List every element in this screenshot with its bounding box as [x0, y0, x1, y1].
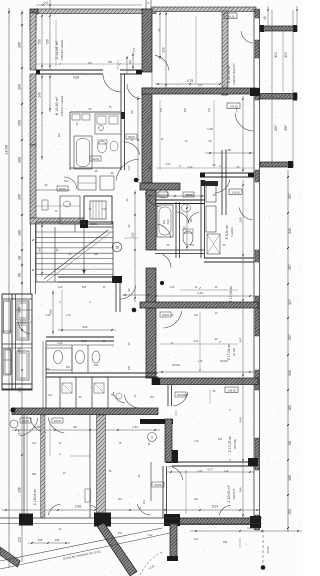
dim lines K room — [41, 74, 43, 160]
column dot C — [160, 281, 164, 285]
dim hall — [134, 190, 136, 302]
dim left mid rooms — [41, 222, 43, 277]
wall kitchen divider — [120, 74, 122, 170]
svg-text:2,02: 2,02 — [128, 165, 131, 170]
svg-text:2,44: 2,44 — [224, 470, 229, 473]
svg-text:365: 365 — [18, 120, 22, 126]
svg-text:13,68: 13,68 — [4, 144, 9, 155]
svg-text:251: 251 — [118, 498, 123, 501]
svg-text:4,78: 4,78 — [187, 79, 193, 83]
terrace edge — [0, 517, 262, 519]
svg-text:90/200: 90/200 — [172, 364, 180, 367]
dim bottom terrace — [2, 509, 260, 511]
svg-text:4,77: 4,77 — [207, 468, 213, 472]
stair top wall segment — [84, 221, 113, 223]
svg-text:750: 750 — [38, 39, 42, 45]
svg-text:385: 385 — [32, 473, 37, 476]
svg-text:AC 300: AC 300 — [233, 347, 236, 356]
marker dashed vertical — [262, 530, 264, 564]
svg-text:Z 22,46 m²: Z 22,46 m² — [227, 64, 231, 83]
svg-text:90/200: 90/200 — [54, 421, 62, 423]
svg-text:1,76: 1,76 — [66, 314, 71, 317]
right top dimension marks — [267, 6, 269, 26]
svg-text:365: 365 — [18, 42, 22, 48]
svg-text:400: 400 — [284, 52, 288, 58]
svg-text:1,51: 1,51 — [133, 47, 136, 52]
svg-text:1.06.05: 1.06.05 — [227, 389, 236, 392]
svg-text:340: 340 — [288, 228, 292, 234]
svg-text:257: 257 — [288, 334, 292, 340]
door arc hall lower — [121, 286, 136, 299]
svg-text:302: 302 — [94, 364, 99, 367]
svg-text:1,51: 1,51 — [150, 139, 153, 144]
door arc bay — [18, 322, 30, 334]
shower mid grid — [207, 234, 220, 254]
svg-text:58: 58 — [288, 441, 292, 445]
bay interior lines — [16, 309, 33, 311]
sink 2 — [110, 141, 118, 151]
wall below right rooms stub — [167, 385, 169, 406]
staircase outline — [36, 222, 113, 282]
door arc below wall 3 — [48, 418, 64, 433]
svg-text:302: 302 — [131, 232, 135, 237]
svg-text:90: 90 — [128, 60, 132, 64]
wall mid major — [140, 302, 258, 308]
svg-text:90/200: 90/200 — [59, 189, 67, 191]
dim bottom room h — [167, 471, 254, 473]
svg-text:9: 9 — [151, 436, 153, 440]
svg-text:1,51: 1,51 — [132, 425, 138, 429]
bay window left outline — [2, 294, 32, 390]
fixtures mid-left — [78, 176, 96, 190]
small marks row — [72, 114, 80, 120]
svg-text:5,03: 5,03 — [212, 505, 218, 509]
door arc bottom room — [168, 466, 182, 480]
counter row y345-372 — [46, 348, 72, 370]
svg-text:2,02: 2,02 — [82, 340, 87, 343]
counter row lower room — [57, 351, 59, 353]
svg-text:2,44: 2,44 — [46, 314, 51, 317]
wall bottom room left — [162, 466, 164, 518]
stalls below — [59, 377, 61, 408]
svg-text:120: 120 — [194, 314, 199, 317]
wall exterior left upper — [30, 13, 36, 70]
svg-text:(AB 0,96): (AB 0,96) — [234, 439, 237, 449]
diagonal retaining wall left corner — [0, 547, 20, 567]
svg-text:150: 150 — [38, 538, 43, 542]
svg-text:90: 90 — [73, 425, 77, 429]
balcony bar mid — [260, 94, 297, 100]
stair circle 16 — [112, 242, 122, 252]
svg-text:302: 302 — [82, 325, 87, 329]
svg-text:2,02: 2,02 — [198, 470, 203, 473]
bay fixtures — [17, 301, 29, 320]
wall step lower-left — [140, 419, 173, 424]
svg-text:2,44: 2,44 — [58, 286, 63, 289]
room left of elevator — [60, 196, 80, 224]
toilets lower — [54, 351, 63, 364]
boxed unit labels — [224, 13, 237, 19]
svg-text:4,10: 4,10 — [197, 291, 203, 295]
dark label box bath — [204, 181, 218, 186]
svg-text:306: 306 — [18, 84, 22, 90]
door arc spine top — [155, 55, 169, 70]
svg-text:257: 257 — [288, 264, 292, 270]
svg-text:347: 347 — [239, 337, 243, 342]
door window arc right low — [239, 208, 253, 220]
svg-text:1,48: 1,48 — [225, 148, 231, 152]
svg-text:730: 730 — [46, 39, 50, 45]
svg-text:251: 251 — [150, 396, 155, 399]
svg-text:2,02: 2,02 — [166, 163, 171, 166]
svg-text:2,02: 2,02 — [64, 180, 69, 183]
svg-text:251: 251 — [46, 368, 51, 371]
terrace door post line — [150, 462, 152, 501]
wall bottom of right rooms — [152, 378, 258, 385]
wall bath bottom — [155, 249, 204, 251]
svg-text:400: 400 — [274, 52, 278, 58]
balcony bar top — [260, 26, 297, 31]
svg-text:302: 302 — [66, 366, 71, 369]
wall lower vertical dark — [165, 419, 172, 462]
door arc kitchen entry — [103, 75, 121, 92]
svg-text:365: 365 — [18, 194, 22, 200]
kitchen bath walls — [69, 112, 71, 170]
svg-text:16: 16 — [115, 246, 119, 250]
svg-text:K 19,60 m²: K 19,60 m² — [55, 96, 59, 115]
svg-text:302: 302 — [118, 532, 123, 535]
spine wall top stub — [145, 0, 147, 9]
door arc hall big — [116, 159, 138, 180]
wall top-right rooms divider — [142, 88, 256, 94]
door arc terrace 2 — [89, 505, 100, 515]
svg-text:90/200: 90/200 — [186, 194, 194, 197]
svg-text:120: 120 — [18, 537, 22, 543]
dim corridor upper — [137, 96, 139, 183]
svg-text:120: 120 — [131, 109, 134, 114]
diagonal retaining wall mid — [97, 523, 137, 576]
svg-text:2,02: 2,02 — [48, 394, 53, 397]
kitchenette counters right — [206, 206, 216, 232]
svg-text:2.0: 2.0 — [44, 1, 49, 5]
dimension chain right — [287, 170, 289, 532]
wall stairwell top — [30, 218, 84, 224]
bathtub top-left — [74, 136, 92, 169]
wall stair bottom — [58, 276, 122, 278]
door arc hall to corridor — [145, 192, 161, 207]
svg-text:4,98: 4,98 — [73, 76, 79, 80]
svg-text:120: 120 — [58, 132, 61, 137]
wall bottom room top — [172, 461, 256, 463]
dim right room2 — [242, 96, 244, 173]
wall top-left room bottom — [36, 69, 142, 71]
door size boxes — [126, 134, 137, 139]
wc lower-left room walls — [45, 341, 47, 408]
svg-text:2,44: 2,44 — [188, 166, 193, 169]
svg-text:257: 257 — [288, 193, 292, 199]
stair center line arrow — [83, 228, 85, 274]
svg-text:346: 346 — [239, 417, 243, 422]
svg-text:Z 17,06 m²: Z 17,06 m² — [227, 343, 231, 360]
svg-text:302: 302 — [190, 244, 195, 247]
door arc lower spine side — [124, 395, 139, 408]
svg-text:1,76: 1,76 — [198, 360, 203, 363]
wall toilets divider — [46, 372, 158, 374]
svg-text:1,51: 1,51 — [148, 193, 151, 198]
dimension chain left inner — [21, 10, 23, 562]
wall bathroom top — [155, 199, 204, 201]
spine wall segment B — [142, 88, 152, 183]
door arc spine mid gap — [162, 254, 171, 267]
door arc mid room entry — [163, 311, 181, 328]
spine wall segment E — [146, 308, 156, 378]
label box bottom mid — [152, 482, 164, 487]
column dot A — [134, 178, 139, 183]
dim room1 bottom cluster — [132, 52, 134, 70]
svg-text:397: 397 — [274, 125, 278, 131]
spine wall segment C — [146, 190, 156, 250]
dimension chain left outer — [8, 8, 10, 568]
door arc bottom-left 2 — [30, 418, 46, 433]
balcony bar low — [260, 162, 293, 167]
svg-text:346: 346 — [288, 370, 292, 376]
wall right of top rooms — [222, 11, 228, 95]
svg-text:90/200: 90/200 — [74, 224, 77, 232]
wall bottom room bottom — [172, 518, 260, 525]
svg-text:385: 385 — [108, 61, 113, 64]
svg-text:90/200: 90/200 — [22, 421, 30, 423]
dim bottom right lower — [190, 530, 302, 532]
svg-text:1,76: 1,76 — [194, 440, 199, 443]
svg-text:306: 306 — [18, 157, 22, 163]
pillar band lower left — [41, 415, 46, 518]
svg-text:2,02: 2,02 — [32, 442, 37, 445]
door arc terrace 1 — [48, 504, 60, 515]
wall exterior top — [36, 9, 156, 14]
svg-text:2,96: 2,96 — [75, 505, 81, 509]
wall bath divider — [175, 202, 177, 258]
washbasins lower arcs — [113, 392, 125, 403]
curve path bottom mid — [140, 552, 163, 575]
wall bathroom top right — [204, 257, 254, 259]
svg-text:90/200: 90/200 — [220, 360, 228, 363]
svg-text:4,08/5,51 PARKETT: 4,08/5,51 PARKETT — [233, 63, 236, 85]
pillar band lower mid — [97, 415, 106, 518]
svg-text:PARKETT: PARKETT — [233, 488, 236, 499]
svg-text:2,02: 2,02 — [102, 208, 107, 211]
svg-text:2,02: 2,02 — [198, 84, 203, 87]
dim right rooms long chain — [242, 180, 244, 518]
svg-text:180: 180 — [288, 475, 292, 481]
svg-text:184: 184 — [239, 487, 243, 492]
svg-text:251: 251 — [143, 499, 146, 504]
svg-text:90/200: 90/200 — [154, 484, 162, 487]
svg-text:Z 17,05 m²: Z 17,05 m² — [228, 435, 232, 452]
svg-text:2,02: 2,02 — [148, 534, 153, 537]
wall exterior right line pair — [253, 9, 255, 530]
svg-text:4,08/4,81 FLIESEN: 4,08/4,81 FLIESEN — [61, 95, 64, 116]
svg-text:1.06.05: 1.06.05 — [226, 15, 235, 18]
door arc lower mid — [173, 392, 188, 406]
svg-text:150: 150 — [288, 509, 292, 515]
svg-text:292: 292 — [162, 47, 166, 53]
svg-text:1,48: 1,48 — [207, 127, 213, 131]
svg-text:WC: WC — [189, 218, 193, 222]
svg-text:2,02: 2,02 — [194, 538, 199, 541]
svg-text:306: 306 — [18, 487, 22, 493]
svg-text:186: 186 — [18, 230, 22, 236]
lower verticals left — [23, 415, 25, 518]
door arc spine kitchen side — [127, 84, 141, 99]
spine wall segment D — [146, 268, 156, 308]
wall exterior left window strip — [30, 218, 32, 294]
door arc corridor lower-left — [123, 142, 139, 155]
svg-text:385: 385 — [148, 286, 153, 289]
dim bottom left lower — [28, 542, 70, 544]
dim lines room1 — [41, 13, 43, 70]
door arc terrace 3 — [219, 505, 230, 515]
door arc bath 1 — [177, 212, 189, 223]
wall k room left — [221, 150, 223, 215]
svg-text:302: 302 — [184, 394, 189, 397]
top dimension marks — [49, 0, 51, 13]
wall exterior left mid — [30, 74, 36, 145]
balcony edge verticals — [271, 10, 273, 167]
terrace piers — [19, 514, 33, 526]
wall exterior left lower — [30, 145, 36, 218]
svg-text:DU: DU — [162, 220, 166, 224]
door arc wc — [188, 212, 199, 223]
elevator shaft — [84, 196, 112, 224]
svg-text:347: 347 — [288, 299, 292, 305]
wall hall divider lower — [115, 283, 117, 312]
svg-text:38: 38 — [18, 256, 22, 260]
svg-text:±0,00: ±0,00 — [266, 546, 270, 553]
svg-text:1.06.05: 1.06.05 — [231, 191, 240, 194]
svg-text:90/200: 90/200 — [92, 159, 100, 161]
svg-text:90/200: 90/200 — [159, 195, 167, 197]
svg-text:175: 175 — [160, 107, 163, 112]
extra interior dim marks — [55, 20, 57, 66]
svg-text:243: 243 — [38, 92, 42, 98]
svg-text:2,44: 2,44 — [170, 286, 175, 289]
wall hall junction — [140, 183, 180, 190]
svg-text:180: 180 — [288, 405, 292, 411]
svg-text:156: 156 — [55, 538, 60, 542]
dim right room3 h — [152, 295, 254, 297]
svg-text:1,80: 1,80 — [247, 526, 253, 530]
column dot B — [132, 308, 137, 313]
svg-text:385: 385 — [82, 286, 87, 289]
wall bath right — [200, 180, 202, 258]
door arc bath 2 — [158, 224, 171, 238]
right wall solid segments — [255, 9, 259, 18]
svg-text:FLIESEN: FLIESEN — [231, 227, 234, 237]
svg-text:340: 340 — [239, 217, 243, 222]
svg-text:4,13: 4,13 — [166, 219, 170, 225]
svg-text:90/200: 90/200 — [162, 315, 170, 317]
svg-text:2,44: 2,44 — [148, 117, 151, 122]
washbasins mid — [158, 190, 168, 198]
stair treads horizontal — [36, 231, 113, 233]
wall bottom stub dark — [170, 524, 177, 558]
svg-text:4,08/3,63 FLIESEN: 4,08/3,63 FLIESEN — [61, 39, 64, 60]
bay walls — [2, 298, 32, 300]
svg-text:251: 251 — [218, 438, 223, 441]
stair break line diagonal — [44, 230, 108, 279]
corner block top-left — [30, 9, 38, 14]
svg-text:188: 188 — [223, 541, 228, 544]
door arc right wall room2 — [235, 113, 253, 131]
svg-text:Z 18,04 m²: Z 18,04 m² — [33, 488, 37, 505]
stair flight divider — [54, 227, 56, 282]
svg-text:2,44: 2,44 — [58, 342, 63, 345]
svg-text:1,76: 1,76 — [236, 107, 239, 112]
wall right interior y175 — [200, 172, 254, 174]
slope boundary lines — [0, 528, 162, 561]
dim bath area — [145, 195, 205, 197]
door arc bottom-left 1 — [19, 418, 38, 436]
circled numbers bottom — [10, 420, 18, 428]
column dot left — [10, 407, 15, 412]
spine wall segment A — [142, 9, 152, 72]
dim lower-left — [12, 429, 160, 431]
svg-text:40: 40 — [263, 16, 267, 20]
dim right room4 h — [158, 371, 254, 373]
svg-text:120: 120 — [128, 365, 131, 370]
door arc terrace post — [137, 504, 150, 515]
door arc right interior k — [215, 180, 230, 193]
wall bottom of left block — [12, 408, 158, 415]
dim top-right room — [165, 11, 167, 88]
svg-text:120: 120 — [208, 107, 211, 112]
kitchen sink counter — [95, 114, 121, 134]
door arc right wall top room — [241, 31, 253, 43]
svg-text:397: 397 — [284, 125, 288, 131]
svg-text:302: 302 — [184, 107, 187, 112]
svg-text:Z 19,04 m²: Z 19,04 m² — [227, 485, 231, 503]
dimension left lower marks — [21, 329, 23, 331]
toilet top-left — [98, 141, 107, 153]
svg-text:90: 90 — [18, 273, 22, 277]
bath middle bathtub — [157, 205, 173, 237]
svg-text:251: 251 — [88, 62, 93, 65]
toilet mid — [183, 231, 193, 245]
wall left lower — [46, 336, 114, 338]
